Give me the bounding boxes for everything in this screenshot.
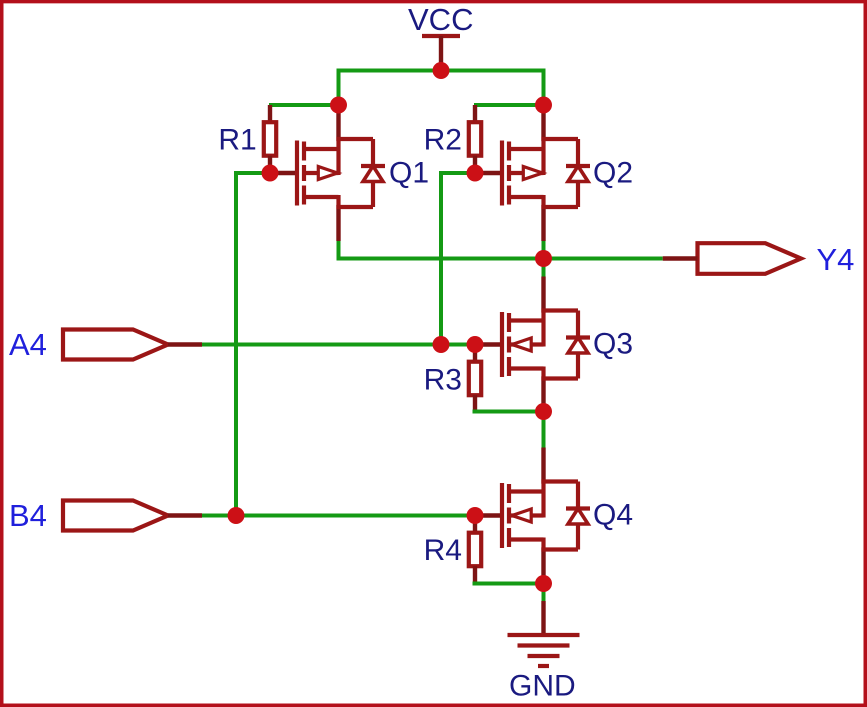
svg-text:Y4: Y4 — [817, 242, 855, 277]
svg-text:Q2: Q2 — [593, 157, 633, 190]
svg-text:R3: R3 — [424, 364, 462, 397]
svg-text:GND: GND — [509, 670, 576, 703]
svg-text:B4: B4 — [9, 498, 47, 533]
svg-text:R2: R2 — [424, 124, 462, 157]
svg-text:Q3: Q3 — [593, 328, 633, 361]
svg-text:Q1: Q1 — [389, 157, 429, 190]
svg-text:R4: R4 — [424, 534, 462, 567]
svg-text:Q4: Q4 — [593, 499, 633, 532]
svg-text:R1: R1 — [218, 124, 256, 157]
svg-text:A4: A4 — [9, 327, 47, 362]
svg-text:VCC: VCC — [408, 2, 473, 37]
